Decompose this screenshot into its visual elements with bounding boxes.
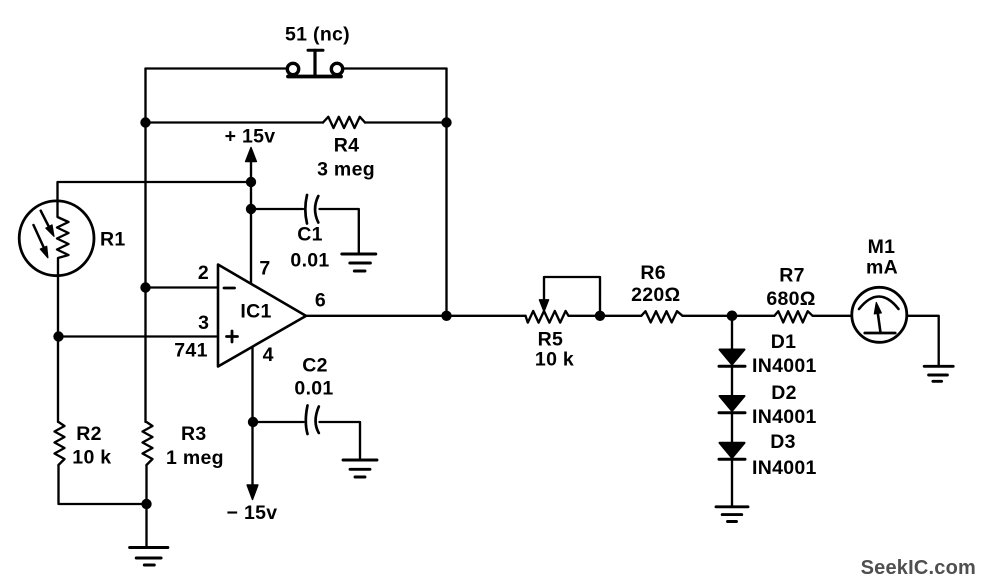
svg-text:M1: M1 [868,236,896,258]
op-amp plus sign [227,331,238,342]
svg-text:1 meg: 1 meg [166,447,224,469]
svg-text:D1: D1 [771,331,797,353]
op-amp minus sign [224,287,235,290]
svg-text:R6: R6 [640,262,666,284]
wire diode chain segment 1 [731,316,733,350]
junction node pin3 R1 R2 [53,331,63,341]
photocell R1 light arrow 2 [34,225,48,258]
op-amp U1 triangle [218,265,306,367]
rheostat R5 wiper bracket [544,277,600,316]
junction node C2 at -15v [248,417,258,427]
svg-text:10 k: 10 k [535,349,574,371]
meter M1 base line [865,332,895,335]
junction node output [441,311,451,321]
ground under diodes [716,507,748,522]
capacitor C2 plates [306,406,319,435]
meter M1 scale arc [859,297,899,310]
svg-text:7: 7 [259,257,270,279]
svg-text:10 k: 10 k [72,446,111,468]
wire pin 4 / -15v stem [251,346,253,485]
svg-text:R4: R4 [334,135,360,157]
wire diode chain segment 3 [731,413,733,443]
svg-text:R1: R1 [100,229,126,251]
resistor R3 zigzag [143,422,153,465]
junction node R4 row right [441,117,451,127]
svg-text:R7: R7 [779,265,805,287]
svg-text:R2: R2 [76,423,102,445]
svg-text:680Ω: 680Ω [766,288,815,310]
ground bottom left [130,548,168,566]
wire C2 right lead to ground [320,422,361,460]
resistor R2 zigzag [55,422,65,465]
resistor R6 zigzag [641,311,682,322]
meter M1 needle [874,303,881,333]
resistor R7 zigzag [774,311,812,322]
junction node R5 wiper [595,311,605,321]
photocell R1 circle [19,201,94,276]
svg-text:C2: C2 [302,355,328,377]
wire R4 row left [146,121,324,123]
svg-text:220Ω: 220Ω [631,284,680,306]
wire left vertical feedback bus [144,69,146,423]
meter M1 circle [852,287,907,342]
resistor R4 zigzag [323,117,365,128]
svg-text:SeekIC.com: SeekIC.com [861,557,976,579]
svg-text:D3: D3 [770,431,796,453]
wire bottom left to ground node [59,465,147,504]
pushbutton S1 bar [288,75,341,79]
svg-text:D2: D2 [771,382,797,404]
ground under C1 [342,254,376,271]
wire top feedback loop right segment [343,67,447,69]
svg-text:mA: mA [866,257,898,279]
wire C2 left lead [253,421,304,423]
junction node pin2 feedback [140,282,150,292]
junction node R1 top at +15v [246,177,256,187]
wire R1 top to +15v stem [58,182,252,202]
svg-text:3: 3 [198,312,209,334]
photocell R1 internal resistor [57,202,69,275]
wire diode chain segment 2 [731,367,733,397]
svg-text:3 meg: 3 meg [317,159,375,181]
pushbutton S1 left contact [287,63,298,74]
svg-text:IN4001: IN4001 [752,406,817,428]
svg-text:+ 15v: + 15v [225,126,276,148]
wire R1 bottom down to R2 [57,275,59,422]
wire C1 left lead [251,208,303,210]
svg-text:IN4001: IN4001 [752,355,817,377]
wire op-amp pin 3 input [59,335,219,337]
svg-text:0.01: 0.01 [290,250,329,272]
svg-text:741: 741 [174,340,207,362]
svg-text:R3: R3 [181,423,207,445]
junction node R4 row left [140,117,150,127]
rheostat R5 wiper arrowhead [539,300,548,312]
wire op-amp pin 2 input [146,286,219,288]
wire R4 row right [365,121,447,123]
ground under C2 [343,460,377,477]
diode D1 [719,350,745,367]
wire R5 to R6 [569,315,642,317]
wire R7 to meter [813,315,852,317]
svg-text:C1: C1 [297,224,323,246]
wire right vertical from switch to output node [445,69,447,316]
ground stem bottom left [145,504,147,547]
wire R6 to R7 [683,315,775,317]
+15v arrow [246,148,257,162]
svg-text:− 15v: − 15v [227,502,278,524]
ground under meter [924,366,953,381]
wire top feedback loop left segment [146,67,288,69]
-15v arrow [247,485,258,500]
diode D2 [719,396,745,413]
svg-text:4: 4 [263,344,274,366]
svg-text:IC1: IC1 [240,301,271,323]
junction node bottom ground [141,499,151,509]
pushbutton S1 right contact [331,63,342,74]
svg-text:2: 2 [198,262,209,284]
wire +15v stem / pin 7 [250,161,252,284]
svg-text:51 (nc): 51 (nc) [285,24,350,46]
wire meter to ground [907,316,939,366]
wire C1 right lead to ground [320,209,359,254]
diode D3 [719,443,745,460]
wire diode chain to ground [731,459,733,506]
capacitor C1 plates [305,195,318,224]
photocell R1 light arrow 1 [41,211,54,237]
resistor R5 zigzag [526,311,569,323]
wire output row op-amp to R5 [306,315,526,317]
svg-text:IN4001: IN4001 [752,457,817,479]
wire R3 bottom to ground node [145,465,147,504]
junction node diode tap [727,311,738,322]
pushbutton S1 stem [308,50,323,76]
junction node C1 at +15v [246,204,256,214]
svg-text:6: 6 [315,290,326,312]
svg-text:R5: R5 [538,329,564,351]
svg-text:0.01: 0.01 [294,378,333,400]
